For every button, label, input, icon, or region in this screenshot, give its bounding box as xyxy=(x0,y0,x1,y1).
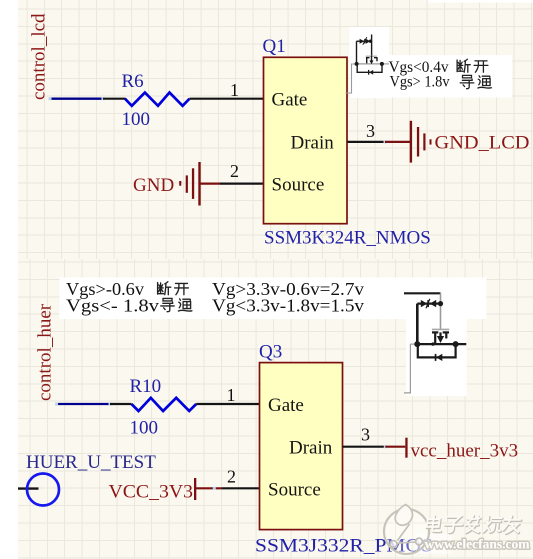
pin name Gate (Q1) xyxy=(272,90,308,111)
annotation text Vgs&gt;-0.6v (Q3 note line 1) xyxy=(66,279,144,299)
label vcc_huer_3v3 xyxy=(411,440,519,461)
resistor R10 xyxy=(132,398,197,411)
annotation glyph dao-tong (line 2) xyxy=(460,75,491,88)
wire: GND to Q1 pin 2 (black) xyxy=(220,183,264,185)
page margin (top-right white sliver) xyxy=(428,0,533,3)
wire: R6 to Q1 pin 1 xyxy=(190,98,264,100)
wire: Q3 pin 3 (black) xyxy=(343,445,387,448)
annotation background (PMOS note) xyxy=(406,319,467,396)
svg-text:2: 2 xyxy=(227,467,236,487)
watermark text dian-zi-fa-shao-you xyxy=(426,516,522,534)
pin number 2 (Q1 source) xyxy=(230,161,239,181)
transistor Q3 (body) xyxy=(260,363,343,530)
test point HUER_U_TEST label xyxy=(26,452,156,473)
pin name Drain (Q1) xyxy=(291,133,335,154)
label R10 xyxy=(130,376,162,397)
pin number 3 (Q1 drain) xyxy=(366,121,375,141)
value 100 (R10) xyxy=(130,418,159,439)
annotation text Vgs&lt;0.4v (line 1) xyxy=(389,59,449,76)
svg-text:Source: Source xyxy=(272,174,325,195)
svg-text:SSM3K324R_NMOS: SSM3K324R_NMOS xyxy=(264,228,431,249)
test point circle xyxy=(18,474,59,506)
pin number 1 (Q1 gate) xyxy=(230,80,239,100)
annotation glyph dao-tong (Q3 note) xyxy=(161,298,192,311)
power port VCC_3V3 xyxy=(194,478,222,500)
pin number 2 (Q3 source) xyxy=(227,467,236,487)
label R6 xyxy=(122,71,144,92)
annotation text Vgs&lt;- 1.8v (line 2) xyxy=(66,296,159,316)
svg-text:Drain: Drain xyxy=(289,438,333,459)
transistor Q1 (body) xyxy=(264,57,348,223)
svg-text:vcc_huer_3v3: vcc_huer_3v3 xyxy=(411,440,519,461)
resistor R6 xyxy=(125,93,190,106)
watermark text www.elecfans.com xyxy=(425,537,531,552)
svg-text:3: 3 xyxy=(361,424,370,444)
wire: VCC_3V3 to Q3 pin 2 xyxy=(213,487,260,490)
svg-text:Vgs> 1.8v: Vgs> 1.8v xyxy=(390,74,450,91)
pin name Source (Q3) xyxy=(268,480,321,501)
annotation glyph duan-kai (line 1) xyxy=(457,59,488,72)
svg-text:2: 2 xyxy=(230,161,239,181)
label VCC_3V3 xyxy=(109,481,194,502)
svg-text:GND: GND xyxy=(133,175,174,196)
net label control_lcd xyxy=(29,13,50,100)
pin name Source (Q1) xyxy=(272,174,325,195)
svg-text:100: 100 xyxy=(130,418,159,439)
svg-text:Q3: Q3 xyxy=(259,342,282,363)
svg-text:Drain: Drain xyxy=(291,133,335,154)
svg-text:R10: R10 xyxy=(130,376,162,397)
svg-text:VCC_3V3: VCC_3V3 xyxy=(109,481,194,502)
wire: into R10 xyxy=(110,403,132,405)
pin name Drain (Q3) xyxy=(289,438,333,459)
part name SSM3J332R_PMOS xyxy=(255,535,433,556)
power port vcc_huer_3v3 xyxy=(405,438,407,458)
pin number 1 (Q3 gate) xyxy=(227,385,236,405)
annotation PMOS symbol drawing xyxy=(404,293,466,393)
watermark logo circle xyxy=(384,505,429,555)
svg-text:GND_LCD: GND_LCD xyxy=(435,133,530,154)
ground GND_LCD xyxy=(410,121,432,163)
pin number 3 (Q3 drain) xyxy=(361,424,370,444)
svg-text:control_huer: control_huer xyxy=(35,303,56,401)
designator Q3 xyxy=(259,342,282,363)
wire: control_lcd net segment xyxy=(49,97,105,100)
designator Q1 xyxy=(263,36,286,57)
svg-text:Vgs<- 1.8v: Vgs<- 1.8v xyxy=(66,296,159,316)
annotation text Vg&lt;3.3v-1.8v=1.5v xyxy=(212,296,364,316)
annotation glyph duan-kai (Q3 note) xyxy=(158,282,189,295)
svg-text:Gate: Gate xyxy=(268,395,304,416)
wire: control_huer net segment xyxy=(55,403,111,406)
annotation text Vg&gt;3.3v-0.6v=2.7v xyxy=(212,279,364,299)
svg-text:www.elecfans.com: www.elecfans.com xyxy=(425,537,531,552)
ground GND xyxy=(179,162,201,206)
svg-text:HUER_U_TEST: HUER_U_TEST xyxy=(26,452,156,473)
part name SSM3K324R_NMOS xyxy=(264,228,431,249)
annotation background (NMOS note) xyxy=(350,27,513,98)
wire: GND to Q1 pin 2 (red stub) xyxy=(201,183,221,185)
annotation NMOS symbol drawing xyxy=(346,35,390,94)
annotation text Vgs&gt; 1.8v (line 2) xyxy=(390,74,450,91)
svg-text:Vg<3.3v-1.8v=1.5v: Vg<3.3v-1.8v=1.5v xyxy=(212,296,364,316)
page margin (left white column) xyxy=(0,0,18,559)
svg-text:1: 1 xyxy=(230,80,239,100)
svg-text:R6: R6 xyxy=(122,71,144,92)
wire: Q1 pin 3 to GND_LCD (black) xyxy=(347,140,386,143)
label GND_LCD xyxy=(435,133,530,154)
pin name Gate (Q3) xyxy=(268,395,304,416)
svg-text:Q1: Q1 xyxy=(263,36,286,57)
svg-text:100: 100 xyxy=(122,109,151,130)
svg-text:1: 1 xyxy=(227,385,236,405)
wire: into R6 xyxy=(103,98,126,100)
value 100 (R6) xyxy=(122,109,151,130)
svg-text:Gate: Gate xyxy=(272,90,308,111)
svg-text:control_lcd: control_lcd xyxy=(29,13,50,100)
svg-text:3: 3 xyxy=(366,121,375,141)
label GND xyxy=(133,175,174,196)
wire: Q3 pin 3 (red stub) xyxy=(385,446,405,448)
net label control_huer xyxy=(35,303,56,401)
wire: Q1 pin 3 to GND_LCD (red stub) xyxy=(385,141,410,143)
annotation background (Vgs note strip) xyxy=(60,278,487,320)
watermark fade over PMOS letters xyxy=(416,534,452,554)
svg-text:Source: Source xyxy=(268,480,321,501)
wire: R10 to Q3 pin 1 xyxy=(196,403,259,405)
